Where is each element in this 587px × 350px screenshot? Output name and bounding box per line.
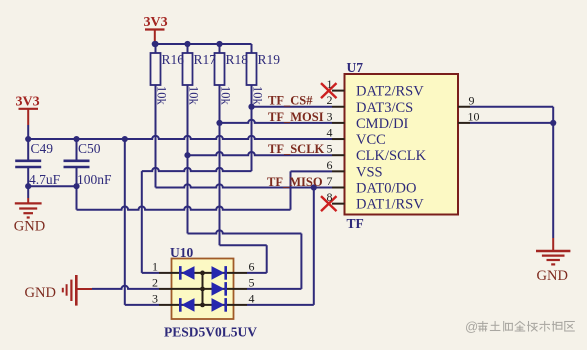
svg-text:U10: U10 (170, 245, 193, 260)
svg-text:GND: GND (25, 285, 56, 301)
svg-text:DAT0/DO: DAT0/DO (356, 181, 416, 197)
svg-text:CMD/DI: CMD/DI (356, 116, 409, 132)
svg-text:GND: GND (14, 219, 45, 235)
svg-text:10: 10 (468, 110, 480, 124)
svg-text:R19: R19 (258, 52, 281, 67)
svg-text:10k: 10k (219, 86, 233, 106)
svg-text:VCC: VCC (356, 132, 386, 148)
svg-text:VSS: VSS (356, 164, 383, 180)
svg-text:3V3: 3V3 (144, 15, 168, 30)
svg-text:R16: R16 (162, 52, 185, 67)
svg-text:PESD5V0L5UV: PESD5V0L5UV (164, 325, 257, 340)
svg-text:C49: C49 (31, 141, 54, 156)
svg-text:DAT2/RSV: DAT2/RSV (356, 84, 424, 100)
svg-text:4: 4 (327, 125, 333, 139)
svg-text:TF_MOSI: TF_MOSI (268, 110, 324, 124)
svg-text:TF_CS#: TF_CS# (268, 94, 313, 108)
svg-text:CLK/SCLK: CLK/SCLK (356, 148, 427, 164)
svg-text:2: 2 (327, 93, 333, 107)
svg-text:GND: GND (537, 268, 568, 284)
svg-text:R18: R18 (226, 52, 249, 67)
svg-text:1: 1 (327, 77, 333, 91)
svg-text:10k: 10k (187, 86, 201, 106)
svg-text:3: 3 (327, 109, 333, 123)
svg-text:TF_SCLK: TF_SCLK (268, 142, 325, 156)
svg-text:10k: 10k (251, 86, 265, 106)
svg-text:1: 1 (152, 259, 158, 273)
svg-text:7: 7 (327, 174, 333, 188)
svg-text:4.7uF: 4.7uF (29, 172, 61, 187)
svg-text:U7: U7 (347, 60, 364, 75)
svg-text:100nF: 100nF (77, 172, 112, 187)
svg-text:DAT3/CS: DAT3/CS (356, 100, 413, 116)
svg-text:3: 3 (152, 291, 158, 305)
svg-text:3V3: 3V3 (16, 95, 40, 110)
svg-text:DAT1/RSV: DAT1/RSV (356, 197, 424, 213)
svg-text:9: 9 (469, 94, 475, 108)
svg-text:8: 8 (327, 190, 333, 204)
svg-text:C50: C50 (78, 141, 101, 156)
svg-text:2: 2 (152, 275, 158, 289)
svg-text:4: 4 (249, 291, 255, 305)
svg-text:R17: R17 (194, 52, 217, 67)
svg-text:TF_MISO: TF_MISO (267, 175, 323, 189)
svg-text:6: 6 (249, 259, 255, 273)
svg-text:6: 6 (327, 158, 333, 172)
svg-text:5: 5 (327, 142, 333, 156)
svg-text:TF: TF (347, 216, 364, 231)
svg-text:5: 5 (249, 275, 255, 289)
svg-text:10k: 10k (155, 86, 169, 106)
svg-text:@: @ (465, 319, 478, 334)
